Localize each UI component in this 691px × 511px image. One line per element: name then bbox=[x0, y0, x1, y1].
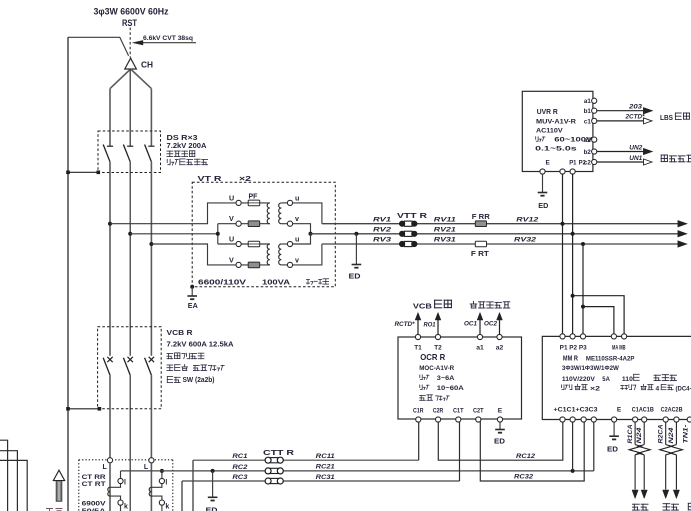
wire C2R dropper RC12 bbox=[438, 420, 563, 461]
svg-text:CTT R: CTT R bbox=[263, 450, 294, 457]
svg-text:F RT: F RT bbox=[471, 251, 490, 258]
arrow UN1 bbox=[644, 159, 653, 165]
label RV32 bbox=[514, 237, 536, 244]
svg-text:RCTD*: RCTD* bbox=[395, 321, 416, 328]
wire VT1 u out bbox=[281, 203, 322, 224]
label RCTD* bbox=[395, 321, 416, 328]
test terminal VTT RV3 bbox=[399, 241, 417, 247]
svg-text:T1: T1 bbox=[414, 345, 422, 352]
arrow incoming feeder bbox=[53, 470, 64, 501]
terminal MM P2 top bbox=[570, 334, 575, 339]
label CT RR bbox=[82, 474, 106, 481]
label VT2 v bbox=[295, 255, 299, 264]
label VT2 U bbox=[229, 234, 234, 243]
terminal MM C1 bottom bbox=[570, 417, 575, 422]
terminal UVR a2 bbox=[584, 137, 597, 144]
svg-text:u: u bbox=[295, 194, 299, 203]
wire OCR a1 arrow bbox=[477, 313, 483, 335]
label RC32 bbox=[514, 474, 534, 481]
breaker VCB phase T bbox=[145, 357, 155, 375]
svg-text:TN1-: TN1- bbox=[684, 425, 690, 444]
label RV2 bbox=[373, 226, 391, 233]
label 203 bbox=[628, 103, 643, 110]
wire pulse output R2CA upper bbox=[665, 422, 667, 445]
svg-text:V: V bbox=[229, 255, 234, 264]
wire VT feed 3 bbox=[151, 244, 236, 265]
terminal VT1 v bbox=[287, 221, 292, 226]
wire fanout left bbox=[110, 69, 131, 89]
wire VT2 v out bbox=[281, 244, 322, 265]
svg-text:×2: ×2 bbox=[239, 174, 251, 183]
relay UVR box bbox=[522, 91, 593, 171]
svg-text:c2: c2 bbox=[584, 159, 591, 166]
svg-text:RV12: RV12 bbox=[516, 216, 538, 223]
wire OCR T1 arrow bbox=[415, 313, 421, 335]
svg-text:MOC-A1V-R: MOC-A1V-R bbox=[419, 365, 454, 372]
label k CT T bbox=[165, 504, 169, 511]
svg-text:6.6kV CVT 38sq: 6.6kV CVT 38sq bbox=[143, 35, 193, 42]
wire CT T secondary bottom bbox=[151, 496, 162, 500]
label right cut kanji bbox=[688, 503, 691, 510]
svg-text:3Φ3W/1Φ3W/1Φ2W: 3Φ3W/1Φ3W/1Φ2W bbox=[562, 365, 620, 372]
label N24 rotated bbox=[637, 427, 643, 444]
svg-text:U: U bbox=[229, 194, 234, 203]
transformer VT2 secondary coil bbox=[279, 244, 282, 265]
terminal VT2 v bbox=[287, 262, 292, 267]
svg-text:c1: c1 bbox=[584, 118, 591, 125]
terminal UVR P2 bottom bbox=[570, 169, 575, 174]
svg-text:R1CA: R1CA bbox=[628, 425, 634, 444]
fuse PF VT2 V bbox=[248, 262, 260, 268]
label MM name bbox=[563, 354, 635, 363]
terminal MM C3 bottom bbox=[591, 417, 596, 422]
node phase R VT tap bbox=[108, 222, 112, 226]
svg-text:UN1: UN1 bbox=[629, 155, 642, 162]
terminal MM E bottom bbox=[612, 417, 617, 422]
wire phase T VCB lower bbox=[150, 375, 152, 458]
wire CT R secondary top bbox=[110, 484, 121, 488]
svg-text:RV1: RV1 bbox=[373, 216, 391, 223]
wire phase R VCB lower bbox=[109, 375, 111, 458]
terminal MM AUX bottom bbox=[687, 417, 691, 422]
svg-text:OCR R: OCR R bbox=[420, 353, 445, 362]
terminal MM P1 top bbox=[560, 334, 565, 339]
terminal VT2 u bbox=[287, 241, 292, 246]
wire VT1 v out bbox=[281, 224, 310, 234]
arrow 2CTD bbox=[644, 118, 653, 124]
node P3-RV3 bbox=[581, 242, 585, 246]
svg-text:RV31: RV31 bbox=[434, 237, 456, 244]
arrow RV1 out bbox=[678, 221, 687, 227]
label VT rating bbox=[198, 279, 329, 287]
svg-text:PF: PF bbox=[249, 194, 259, 201]
terminal UVR a1 bbox=[584, 98, 597, 105]
label R1CA rotated bbox=[628, 425, 634, 444]
node ED tap RV2 bbox=[354, 232, 358, 236]
svg-text:a1: a1 bbox=[476, 345, 484, 352]
resistor N24 bbox=[638, 445, 650, 455]
svg-text:(DC4-: (DC4- bbox=[676, 385, 691, 392]
wire RC1 riser bbox=[192, 460, 194, 511]
svg-text:U: U bbox=[229, 234, 234, 243]
ground ED MM bbox=[609, 436, 619, 439]
label UVR name bbox=[537, 107, 559, 116]
wire phase R upper bbox=[109, 89, 111, 146]
wire ED drop VT bbox=[355, 234, 357, 265]
label UVR E bbox=[546, 160, 551, 167]
wire ED drop CT bbox=[212, 471, 214, 497]
svg-text:F RR: F RR bbox=[472, 214, 490, 221]
label VTT R bbox=[397, 213, 427, 220]
svg-text:CT RT: CT RT bbox=[82, 481, 106, 488]
label DS line2 bbox=[167, 143, 207, 150]
fuse PF VT1 V bbox=[248, 221, 260, 227]
label RC11 bbox=[316, 453, 336, 460]
fuse F RR bbox=[475, 221, 486, 227]
terminal MM C1A bottom bbox=[633, 417, 638, 422]
label CT rating2 bbox=[82, 508, 107, 511]
terminal UVR c2 bbox=[584, 159, 597, 166]
svg-text:LBS: LBS bbox=[660, 113, 673, 122]
svg-text:7.2kV 600A 12.5kA: 7.2kV 600A 12.5kA bbox=[167, 342, 234, 349]
wire phase T upper bbox=[150, 89, 152, 146]
label UVR lock bbox=[536, 137, 594, 144]
terminal MM C2B bottom bbox=[674, 417, 679, 422]
label RV12 bbox=[516, 216, 538, 223]
svg-text:×2: ×2 bbox=[590, 385, 600, 392]
label OCR trip bbox=[420, 395, 450, 401]
svg-text:110: 110 bbox=[622, 376, 633, 383]
svg-text:RC1: RC1 bbox=[232, 453, 248, 460]
wire MA branch bbox=[583, 307, 614, 337]
terminal MM +C3 bottom bbox=[581, 417, 586, 422]
svg-text:0.1~5.0s: 0.1~5.0s bbox=[535, 146, 577, 153]
wire phase T through CT bbox=[150, 463, 152, 511]
wire RV2 line bbox=[311, 233, 679, 235]
node VT riser junction bbox=[216, 232, 220, 236]
label F RT bbox=[471, 251, 490, 258]
wire C1 dropper bbox=[572, 420, 574, 471]
node EA corner bbox=[190, 285, 194, 289]
svg-text:ME110SSR-4A2P: ME110SSR-4A2P bbox=[586, 356, 635, 363]
ct coil CT T bbox=[149, 487, 151, 496]
ground ED VT secondary bbox=[352, 265, 362, 268]
svg-text:RV32: RV32 bbox=[514, 237, 536, 244]
wire MB branch bbox=[573, 296, 625, 337]
label RV21 bbox=[434, 226, 456, 233]
wire phase S upper bbox=[129, 69, 131, 146]
terminal CT R L bbox=[107, 458, 112, 463]
ct coil CT R bbox=[108, 487, 110, 496]
svg-text:E: E bbox=[498, 407, 503, 414]
resistor R2CA bbox=[660, 445, 672, 455]
svg-text:3φ3W 6600V 60Hz: 3φ3W 6600V 60Hz bbox=[94, 7, 169, 17]
svg-text:l: l bbox=[165, 479, 167, 486]
svg-text:C1T: C1T bbox=[453, 407, 464, 414]
test terminal CTT RC2 bbox=[265, 468, 283, 474]
label VCB trip bbox=[413, 300, 452, 310]
wire OCR E drop bbox=[499, 422, 501, 429]
terminal VT1 V bbox=[236, 221, 241, 226]
label OCR name bbox=[420, 353, 445, 362]
wire P2 dropper bbox=[572, 174, 574, 336]
wire left feeder 3 bbox=[0, 460, 27, 511]
svg-text:6900V: 6900V bbox=[82, 501, 107, 508]
svg-text:b1: b1 bbox=[584, 108, 592, 115]
svg-text:RV11: RV11 bbox=[434, 216, 456, 223]
terminal OCR C1T bottom bbox=[453, 407, 464, 422]
label OC2 bbox=[484, 321, 498, 328]
svg-text:UVR R: UVR R bbox=[537, 107, 559, 116]
terminal OCR T2 top bbox=[434, 334, 442, 351]
wire CT R l riser bbox=[120, 471, 122, 479]
svg-text:L: L bbox=[144, 464, 149, 471]
svg-text:RC11: RC11 bbox=[316, 453, 336, 460]
svg-text:CT RR: CT RR bbox=[82, 474, 106, 481]
wire phase R through CT bbox=[109, 463, 111, 511]
svg-text:7.2kV 200A: 7.2kV 200A bbox=[167, 143, 207, 150]
arrow UN2 bbox=[644, 149, 653, 155]
label VCB line4 bbox=[167, 364, 224, 370]
terminal MM C1B bottom bbox=[642, 417, 647, 422]
terminal OCR E bottom bbox=[497, 407, 502, 422]
label L CT R bbox=[103, 464, 108, 471]
disconnect switch DS phase S bbox=[123, 145, 133, 162]
label VT1 u bbox=[295, 194, 299, 203]
label VT1 v bbox=[295, 214, 299, 223]
terminal OCR C2R bottom bbox=[433, 407, 444, 422]
test terminal VTT RV2 bbox=[399, 231, 417, 237]
svg-text:CH: CH bbox=[141, 61, 153, 70]
node phase S VT tap bbox=[128, 232, 132, 236]
wire left feeder 2 bbox=[0, 451, 17, 511]
enclosure VCB dashed box bbox=[98, 327, 162, 409]
terminal CT R k bbox=[118, 500, 123, 505]
wire OCR a2 arrow bbox=[497, 313, 503, 335]
label MM bottom terms bbox=[554, 406, 683, 413]
svg-text:a1: a1 bbox=[584, 98, 591, 105]
label MM phases bbox=[562, 365, 620, 372]
label RC21 bbox=[316, 464, 336, 471]
terminal OCR C1R bottom bbox=[413, 407, 424, 422]
wire RC1 line bbox=[193, 459, 419, 461]
cable head CH bbox=[125, 58, 137, 69]
svg-text:6600/110V: 6600/110V bbox=[198, 280, 246, 287]
terminal MM MA top bbox=[611, 334, 616, 339]
svg-text:V: V bbox=[229, 214, 234, 223]
arrow 203 bbox=[644, 108, 653, 114]
fuse PF VT2 U bbox=[248, 241, 260, 247]
svg-text:ED: ED bbox=[206, 506, 218, 511]
terminal OCR C2T bottom bbox=[473, 407, 484, 422]
svg-text:C1R: C1R bbox=[413, 407, 424, 414]
svg-text:T2: T2 bbox=[434, 345, 442, 352]
ground ED OCR bbox=[495, 430, 505, 433]
wire VT feed 2 bbox=[130, 233, 218, 235]
svg-text:RC21: RC21 bbox=[316, 464, 336, 471]
wire RC2 line bbox=[121, 470, 594, 472]
wire RV1 line bbox=[322, 223, 679, 225]
label CH bbox=[141, 61, 153, 70]
wire CT R k drop bbox=[120, 505, 122, 511]
label F RR bbox=[472, 214, 490, 221]
wire phase S VCB lower bbox=[129, 375, 131, 511]
label RC12 bbox=[516, 453, 536, 460]
svg-text:110V/220V: 110V/220V bbox=[562, 376, 595, 383]
terminal UVR b2 bbox=[584, 149, 597, 156]
label ED CT bbox=[206, 506, 218, 511]
label OCR lock2 bbox=[420, 385, 464, 392]
wire pulse output N24 upper bbox=[675, 422, 677, 445]
svg-text:N24: N24 bbox=[637, 427, 643, 444]
wire VT2 U row bbox=[218, 243, 270, 245]
fuse PF VT1 U bbox=[248, 200, 260, 206]
label LBS trip bbox=[660, 113, 689, 122]
svg-text:DS R×3: DS R×3 bbox=[167, 135, 198, 142]
label VT1 V bbox=[229, 214, 234, 223]
terminal UVR E bottom bbox=[540, 169, 545, 174]
terminal UVR c1 bbox=[584, 118, 597, 125]
svg-text:C1AC1B: C1AC1B bbox=[632, 406, 654, 413]
svg-text:AC110V: AC110V bbox=[536, 127, 563, 134]
wire EA drop bbox=[191, 287, 193, 296]
label MM outputs bbox=[561, 384, 691, 392]
node P1-RV1 bbox=[561, 222, 565, 226]
resistor R1CA bbox=[629, 445, 641, 455]
svg-text:u: u bbox=[295, 234, 299, 243]
node source label 3phi3W 6600V 60Hz bbox=[94, 7, 169, 17]
breaker VCB phase S bbox=[123, 357, 132, 375]
label DS line3 bbox=[167, 151, 195, 157]
svg-text:P1 P2 P3: P1 P2 P3 bbox=[560, 345, 588, 352]
svg-text:P1: P1 bbox=[569, 160, 577, 167]
breaker VCB phase R bbox=[103, 357, 113, 375]
svg-text:4: 4 bbox=[656, 385, 660, 392]
svg-text:203: 203 bbox=[628, 103, 643, 110]
label VT1 U bbox=[229, 194, 234, 203]
wire bypass top bbox=[68, 37, 129, 56]
label VT2 u bbox=[295, 234, 299, 243]
terminal VT1 u bbox=[287, 200, 292, 205]
wire VT1 V row bbox=[218, 223, 270, 225]
node RC2-C1 bbox=[571, 469, 575, 473]
wire RV3 line bbox=[322, 243, 679, 245]
enclosure DS dashed box bbox=[98, 131, 161, 173]
svg-text:R2CA: R2CA bbox=[659, 425, 665, 444]
label UVR model bbox=[536, 118, 576, 125]
label ED UVR bbox=[538, 203, 548, 210]
svg-text:C2AC2B: C2AC2B bbox=[661, 406, 683, 413]
label cable 6.6kV CVT 38sq bbox=[143, 35, 193, 42]
test terminal CTT RC1 bbox=[265, 457, 283, 463]
svg-text:MA MB: MA MB bbox=[612, 346, 626, 352]
svg-text:VT R: VT R bbox=[198, 174, 223, 183]
wire VT1 U row bbox=[241, 202, 270, 204]
fuse F RT bbox=[475, 241, 486, 247]
label VCB line2 bbox=[167, 342, 234, 349]
svg-text:v: v bbox=[295, 255, 299, 264]
label DS line4 bbox=[167, 159, 207, 165]
label RC1 bbox=[232, 453, 248, 460]
svg-text:VTT R: VTT R bbox=[397, 213, 427, 220]
wire bypass-VCB link bbox=[66, 407, 101, 411]
terminal MM P3 top bbox=[580, 334, 585, 339]
label MM P1P2P3 bbox=[560, 345, 588, 352]
terminal VT2 V bbox=[236, 262, 241, 267]
label 2CTD* bbox=[625, 114, 645, 121]
svg-text:L: L bbox=[103, 464, 108, 471]
svg-text:OC2: OC2 bbox=[484, 321, 498, 328]
terminal MM +C1 bottom bbox=[560, 417, 565, 422]
wire phase T DS lower bbox=[150, 162, 152, 356]
label L CT T bbox=[144, 464, 149, 471]
wire UVR out b2 bbox=[597, 151, 645, 153]
arrow pulse N24 bbox=[641, 490, 647, 499]
node MA-P3 bbox=[581, 305, 585, 309]
label ED VT bbox=[349, 272, 361, 281]
enclosure CT dotted box bbox=[79, 460, 173, 511]
terminal OCR a2 top bbox=[496, 334, 504, 351]
label UN2 bbox=[629, 144, 642, 151]
wire cable spec leader 6.6kV CVT 38sq bbox=[133, 40, 197, 45]
arrow RV3 out bbox=[678, 241, 687, 247]
arrow pulse N24 bbox=[673, 490, 679, 499]
svg-text:E: E bbox=[546, 160, 551, 167]
svg-text:C2T: C2T bbox=[473, 407, 484, 414]
wire CT R secondary bottom bbox=[110, 496, 121, 500]
label RV3 bbox=[373, 237, 391, 244]
label incoming red bbox=[46, 509, 63, 511]
wire UVR out c2 bbox=[597, 161, 645, 163]
wire RC3 riser bbox=[181, 481, 183, 511]
wire C1T dropper bbox=[459, 420, 461, 482]
node CT T l junction bbox=[160, 469, 164, 473]
svg-text:v: v bbox=[295, 214, 299, 223]
wire phase S DS lower bbox=[129, 162, 131, 356]
svg-text:k: k bbox=[165, 504, 169, 511]
label purchase power bbox=[633, 504, 649, 510]
svg-text:10~60A: 10~60A bbox=[437, 385, 464, 392]
svg-text:MM R: MM R bbox=[563, 354, 578, 363]
wire pulse output R1CA upper bbox=[634, 422, 636, 445]
label OC overcurrent bbox=[470, 301, 510, 308]
svg-text:a2: a2 bbox=[584, 137, 591, 144]
svg-text:RST: RST bbox=[122, 18, 137, 28]
enclosure VT dashed box bbox=[192, 182, 335, 286]
resistor N24 bbox=[670, 445, 682, 455]
terminal OCR T1 top bbox=[414, 334, 422, 351]
transformer VT1 primary coil bbox=[267, 203, 270, 224]
wire VT feed 1 bbox=[110, 203, 236, 224]
label UVR P1P2 bbox=[569, 160, 586, 167]
disconnect switch DS phase T bbox=[145, 145, 155, 162]
wire OCR T2 arrow bbox=[435, 313, 441, 335]
label N24 rotated bbox=[669, 427, 675, 444]
terminal MM MB top bbox=[622, 334, 627, 339]
relay OCR box bbox=[398, 337, 522, 419]
arrow pulse R2CA bbox=[663, 490, 669, 499]
wire VT riser mid bbox=[217, 224, 219, 244]
svg-text:OC1: OC1 bbox=[464, 321, 478, 328]
arrow RV2 out bbox=[678, 231, 687, 237]
ground ED CT bbox=[208, 497, 218, 500]
svg-text:l: l bbox=[124, 479, 126, 486]
label R2CA rotated bbox=[659, 425, 665, 444]
test terminal VTT RV1 bbox=[399, 221, 417, 227]
label VCB line5 bbox=[167, 377, 214, 384]
transformer VT1 secondary coil bbox=[279, 203, 282, 224]
label MM MAMB bbox=[612, 346, 626, 352]
